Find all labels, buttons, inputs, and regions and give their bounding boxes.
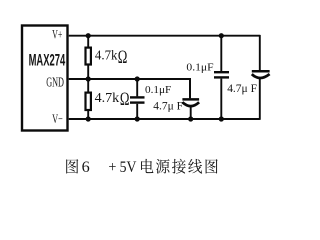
svg-text:5V: 5V <box>120 158 137 176</box>
caption: figure number 图 6 <box>66 158 89 176</box>
wire GND rail from pin GND with corner down to capacitor C2 <box>69 79 190 98</box>
junction node on V- rail at C1 <box>135 116 140 121</box>
svg-text:V+: V+ <box>52 28 62 42</box>
junction node on V- rail at C3 <box>219 116 224 121</box>
junction node on GND rail at R1/R2 <box>86 76 91 81</box>
op-amp filter IC U1 MAX274 body <box>22 26 68 131</box>
junction node on V+ rail at C3 <box>219 33 224 38</box>
junction node on GND rail at C1 <box>135 76 140 81</box>
wire V- rail from pin V- to right column <box>69 118 260 120</box>
junction node on V+ rail at R1 <box>86 33 91 38</box>
svg-text:V−: V− <box>52 112 63 126</box>
junction node on V- rail at R2 <box>86 116 91 121</box>
resistor R1 4.7k body <box>87 36 89 48</box>
capacitor C2 4.7uF polarized between GND corner and V- <box>182 98 199 101</box>
svg-text:Ω: Ω <box>118 48 128 68</box>
capacitor C1 0.1uF between GND and V- <box>136 79 138 96</box>
wire V+ rail from pin V+ to right column <box>69 35 260 37</box>
wire C4 bottom lead to V- rail <box>259 78 261 120</box>
svg-text:GND: GND <box>46 76 64 91</box>
capacitor C3 0.1uF between V+ rail and V- rail <box>220 36 222 71</box>
junction node on V- rail at C2 <box>188 116 193 121</box>
resistor R2 4.7k body <box>87 79 89 93</box>
caption: +5V power wiring title <box>108 158 217 176</box>
svg-text:MAX274: MAX274 <box>29 52 66 70</box>
svg-text:6: 6 <box>82 158 90 176</box>
svg-text:+: + <box>108 158 116 176</box>
svg-text:Ω: Ω <box>120 90 130 110</box>
svg-text:0.1μF: 0.1μF <box>145 85 172 96</box>
capacitor C4 4.7uF polarized at right column <box>252 70 270 73</box>
svg-text:4.7k: 4.7k <box>95 91 120 106</box>
svg-text:0.1μF: 0.1μF <box>186 61 213 73</box>
svg-text:4.7k: 4.7k <box>95 49 118 64</box>
wire right column drop from V+ rail to capacitor C4 <box>259 35 261 70</box>
svg-text:4.7μ F: 4.7μ F <box>153 100 183 112</box>
svg-text:4.7μ F: 4.7μ F <box>227 81 257 95</box>
